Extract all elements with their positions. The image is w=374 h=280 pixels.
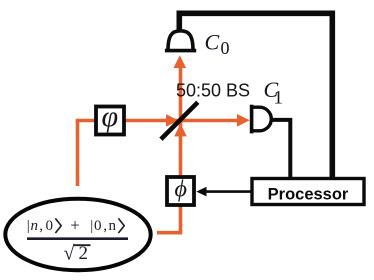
svg-text:,: , — [39, 218, 43, 234]
arrowhead: beam into C1 detector (right) — [237, 114, 250, 127]
svg-text:ϕ: ϕ — [175, 177, 187, 203]
beamsplitter BS diagonal — [161, 102, 198, 139]
svg-text:Processor: Processor — [268, 186, 349, 204]
wire: thick black from C0 to top right down to Processor — [179, 13, 332, 178]
svg-text:C: C — [205, 30, 220, 55]
svg-text:50:50 BS: 50:50 BS — [176, 81, 250, 101]
wire: orange beam vertical through phi and BS to C0 — [179, 60, 183, 235]
svg-text:1: 1 — [274, 88, 284, 109]
ket bracket 2 — [118, 218, 124, 233]
svg-text:0: 0 — [94, 218, 102, 234]
wire: black arrow Processor to phi box — [205, 190, 252, 193]
wire: orange beam left vertical segment — [76, 121, 80, 187]
ket bracket 1 — [55, 218, 61, 233]
arrowhead: beam up into C0 detector — [174, 55, 187, 68]
arrowhead: beam into BS (right) — [166, 114, 179, 127]
wire: orange beam horizontal through varphi to C1 — [76, 119, 243, 123]
detector C1 (D shape) — [253, 107, 272, 131]
svg-text:√: √ — [64, 243, 75, 265]
svg-text:n: n — [31, 218, 39, 234]
svg-text:φ: φ — [102, 100, 119, 133]
svg-text:0: 0 — [46, 218, 54, 234]
svg-text:+: + — [70, 216, 80, 235]
wire: orange beam bottom horizontal from ellipse — [157, 231, 181, 235]
box varphi (phase shifter) — [96, 107, 124, 135]
processor box — [252, 179, 364, 205]
arrowhead: into phi box (left) — [196, 187, 206, 197]
detector C0 (dome) — [168, 31, 193, 51]
fraction bar — [27, 237, 128, 240]
box phi (feedback phase) — [167, 177, 194, 205]
svg-text:n: n — [109, 218, 117, 234]
svg-text:|: | — [27, 218, 30, 234]
svg-text:|: | — [90, 218, 93, 234]
wire: black from C1 detector down to Processor — [271, 120, 290, 178]
svg-text:,: , — [103, 218, 107, 234]
ellipse input state — [5, 199, 150, 270]
svg-text:2: 2 — [79, 243, 89, 264]
arrowhead: beam up below BS — [174, 124, 187, 137]
svg-text:0: 0 — [221, 38, 230, 58]
